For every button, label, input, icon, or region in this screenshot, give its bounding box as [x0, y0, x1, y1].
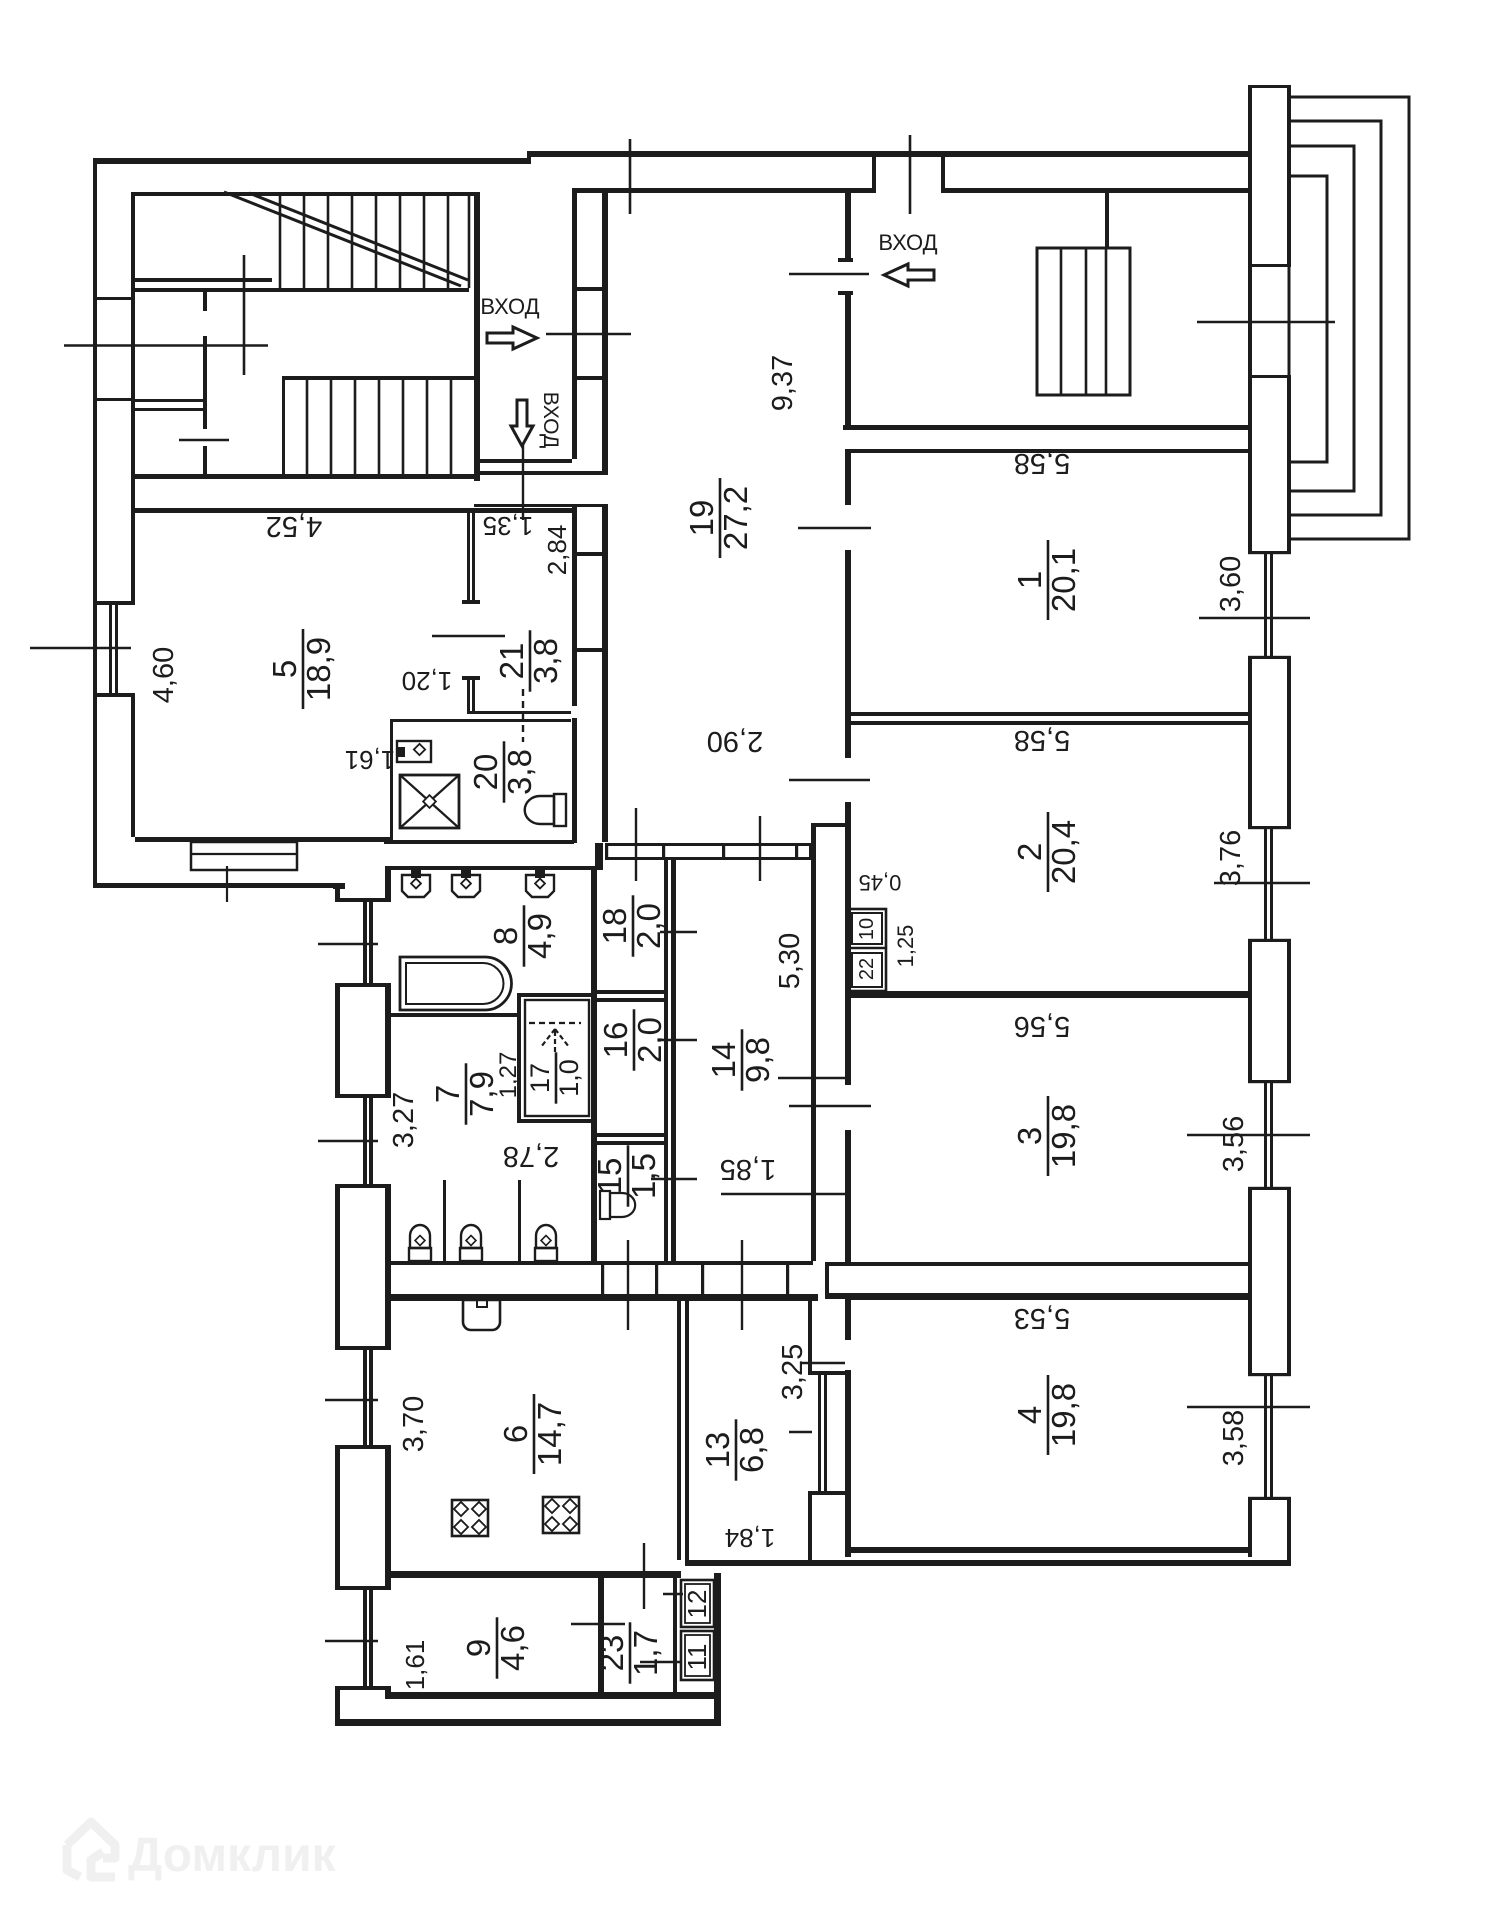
wall top band inner line left of door: [572, 188, 872, 193]
wall jog corridor19-corridor14: [811, 823, 847, 827]
toilet stall 3: [535, 1248, 557, 1261]
wall west top connector: [333, 884, 345, 889]
wall entrance inner stub: [1105, 193, 1109, 248]
wall bath block right column: [591, 866, 597, 1261]
svg-text:14,7: 14,7: [531, 1402, 568, 1466]
room label 8/4.9: [487, 905, 558, 966]
wall west outer face lower wing: [335, 884, 340, 898]
svg-text:9: 9: [460, 1639, 497, 1657]
stairs stringer diagonal 2: [249, 193, 468, 280]
door axis tick room1: [798, 527, 871, 530]
svg-text:12: 12: [682, 1590, 712, 1619]
svg-text:5,56: 5,56: [1014, 1010, 1070, 1042]
door axis tick room3: [789, 1105, 871, 1108]
wall small rooms divider: [135, 399, 207, 402]
svg-text:3,56: 3,56: [1218, 1116, 1250, 1172]
wall corridor19 east upper: [845, 193, 851, 262]
wall box16 bottom: [591, 1133, 668, 1137]
svg-text:11: 11: [682, 1644, 712, 1671]
window room7 west: [335, 1094, 391, 1098]
svg-text:6,8: 6,8: [733, 1427, 770, 1473]
svg-text:5: 5: [266, 660, 303, 678]
wall left block bottom: [384, 840, 574, 844]
vestibule top line upper: [474, 459, 572, 463]
svg-text:Домклик: Домклик: [128, 1829, 337, 1882]
svg-text:2,0: 2,0: [631, 1017, 668, 1063]
door axis tick kitchen-room9: [643, 1543, 645, 1609]
wall jamb block-corridor corner: [595, 843, 603, 869]
toilet box15: [600, 1191, 610, 1219]
svg-text:ВХОД: ВХОД: [878, 230, 937, 255]
window room9 axis tick: [325, 1640, 378, 1642]
kitchen sink: [463, 1300, 500, 1330]
svg-text:2,84: 2,84: [542, 525, 572, 576]
wall hall21 top / room5 top: [135, 508, 572, 513]
toilet stall 1: [409, 1248, 431, 1261]
wall boxes right face: [664, 860, 668, 1261]
room label 16/2.0: [597, 1009, 668, 1070]
room label 18/2.0: [596, 895, 667, 956]
wc partition 1: [443, 1180, 446, 1261]
door axis tick left rooms: [64, 344, 268, 347]
svg-text:ВХОД: ВХОД: [539, 392, 562, 449]
stairs lower flight left edge: [282, 380, 285, 474]
door cap entrance west top: [838, 258, 853, 262]
wall top band inner line right of door: [945, 188, 1248, 193]
door axis dashed hall21-room20: [522, 689, 524, 742]
door axis tick kitchen x628: [627, 1240, 629, 1330]
box12 outer: [681, 1580, 714, 1627]
wall room4 bottom: [851, 1547, 1251, 1553]
arrow vestibule down: [511, 400, 533, 446]
door axis tick entrance-left door: [546, 333, 631, 336]
svg-text:20,4: 20,4: [1045, 820, 1082, 884]
svg-text:1,35: 1,35: [483, 511, 534, 541]
box11 inner: [685, 1635, 710, 1676]
shower17 spray dashes: [529, 1022, 581, 1024]
svg-text:3,60: 3,60: [1215, 556, 1247, 612]
wall lower wing bottom inner: [391, 1692, 721, 1699]
svg-text:23: 23: [593, 1635, 630, 1672]
svg-text:27,2: 27,2: [717, 486, 754, 550]
wall east inner face segments: [1248, 85, 1252, 551]
wall corridor19 west inner face segments: [572, 193, 577, 459]
wall east outer face segments: [1287, 88, 1291, 264]
door jamb corridor19 west y555: [572, 552, 608, 556]
wall staircase block bottom: [135, 474, 480, 479]
door axis tick corridor19 bottom x636: [635, 808, 637, 881]
wall room20 left: [390, 722, 393, 840]
svg-text:1,85: 1,85: [720, 1153, 776, 1185]
room label 17/1.0: [525, 1052, 584, 1103]
svg-text:7: 7: [429, 1085, 466, 1103]
shaft 22-10 outer box: [848, 909, 886, 991]
door axis tick box15: [651, 1178, 697, 1180]
balcony rect D inner: [1289, 176, 1327, 462]
wall corridor19 east below entrance door: [845, 291, 851, 428]
shaft 10 inner box: [852, 913, 882, 944]
wall entrance block bottom: [843, 425, 1248, 430]
wall room23 east: [673, 1578, 677, 1692]
svg-text:3,70: 3,70: [398, 1396, 430, 1452]
wall small rooms right jamb upper: [203, 292, 207, 311]
wall room8 bottom: [389, 1013, 519, 1017]
wall room1 top: [845, 449, 1248, 453]
svg-text:4,6: 4,6: [494, 1625, 531, 1671]
door axis tick balcony door: [1197, 321, 1335, 324]
shower room20: [400, 775, 459, 828]
svg-text:3,27: 3,27: [388, 1092, 420, 1148]
stove 1 kitchen: [452, 1500, 488, 1536]
door jamb corridor19 west y378: [572, 376, 608, 380]
svg-text:3,25: 3,25: [777, 1344, 809, 1400]
stairs lower flight risers: [306, 380, 309, 474]
room label 13/6.8: [699, 1419, 770, 1480]
svg-text:5,58: 5,58: [1014, 724, 1070, 756]
sink room20: [397, 741, 431, 762]
door axis tick room5-hall21: [432, 635, 505, 638]
wall room23 west: [598, 1578, 604, 1692]
exterior steps mid line: [191, 853, 297, 855]
svg-text:4,60: 4,60: [148, 647, 180, 703]
svg-text:2: 2: [1011, 843, 1048, 861]
svg-text:1,27: 1,27: [495, 1052, 522, 1099]
wall lower wing bottom outer: [335, 1719, 721, 1726]
wall outer bottom-left: [93, 883, 345, 888]
window left wall room5 cap bottom: [93, 693, 135, 697]
wall bath block top: [389, 866, 603, 870]
wall staircase top inner: [135, 192, 480, 196]
wall outer top-left block: [93, 158, 531, 164]
shaft divider: [848, 947, 886, 950]
wall room5-room20 lower line: [390, 719, 571, 722]
window room3 east: [1248, 1080, 1291, 1083]
stairs lower flight top edge: [282, 376, 474, 380]
wall jog rooms3-4 west notch: [825, 1262, 851, 1266]
balcony rect B: [1289, 121, 1381, 515]
box12 inner: [685, 1584, 710, 1623]
room label 6/14.7: [497, 1394, 568, 1474]
svg-text:13: 13: [699, 1432, 736, 1469]
svg-text:21: 21: [493, 643, 530, 680]
door axis tick box18: [660, 931, 697, 933]
wall kitchen-room13 divider: [677, 1301, 681, 1560]
wall rooms west face segments: [845, 453, 851, 505]
svg-text:3: 3: [1011, 1127, 1048, 1145]
door axis tick corridor19 bottom x760: [759, 816, 761, 881]
top door jamb left: [872, 151, 876, 193]
wall cavity cap left upper: [93, 297, 135, 300]
balcony bar top cap: [1248, 85, 1291, 88]
wall corridor19 bottom lower line: [605, 857, 813, 860]
window room13-room4 caps: [808, 1371, 848, 1375]
door axis tick vertical small rooms: [243, 255, 246, 375]
sink 1 room8: [411, 869, 421, 878]
wall west inner face lower wing: [385, 866, 391, 898]
wall left inner face upper: [131, 192, 135, 601]
door axis tick corridor14 east y1194: [721, 1193, 851, 1195]
top door jamb right: [941, 151, 945, 193]
door cap hall21 lower: [462, 676, 480, 680]
door axis tick room23 west: [571, 1623, 625, 1625]
door axis tick entrance right block: [789, 273, 869, 276]
toilet stall 2: [460, 1248, 482, 1261]
svg-text:1: 1: [1011, 571, 1048, 589]
svg-text:10: 10: [856, 918, 878, 940]
room label 20/3.8: [467, 741, 538, 802]
svg-text:1,5: 1,5: [625, 1153, 662, 1199]
door jamb corridor19 west y289: [572, 287, 608, 291]
room label 14/9.8: [705, 1029, 776, 1090]
svg-text:1,61: 1,61: [400, 1640, 430, 1691]
svg-text:6: 6: [497, 1425, 534, 1443]
window left wall room5 glazing: [109, 601, 112, 697]
wall room13 east lower: [808, 1495, 812, 1560]
svg-text:22: 22: [856, 958, 878, 980]
wall room13 east upper: [808, 1301, 812, 1371]
svg-text:3,8: 3,8: [527, 638, 564, 684]
svg-text:18,9: 18,9: [300, 637, 337, 701]
svg-text:4,9: 4,9: [521, 913, 558, 959]
entrance steps box: [1037, 248, 1130, 395]
wall corridor19 bottom upper line: [605, 843, 813, 846]
exterior steps below room5: [191, 842, 297, 870]
exterior steps tick: [226, 866, 228, 902]
svg-text:0,45: 0,45: [859, 870, 902, 895]
svg-text:3,8: 3,8: [501, 749, 538, 795]
svg-text:5,53: 5,53: [1014, 1302, 1070, 1334]
wall rooms1-2 divider: [851, 712, 1248, 716]
door axis tick room2: [789, 779, 870, 782]
wall rooms2-3 divider: [851, 991, 1248, 998]
window room2 axis tick: [1214, 882, 1310, 885]
wall kitchen top: [385, 1294, 818, 1301]
room label 9/4.6: [460, 1617, 531, 1678]
wall corridor19 west outer face segments: [602, 193, 608, 471]
window room13-room4 glazing: [818, 1375, 821, 1491]
wall box16 top: [591, 998, 668, 1002]
wall staircase right: [474, 196, 480, 481]
wall room5 bottom: [135, 837, 393, 842]
svg-text:19,8: 19,8: [1045, 1104, 1082, 1168]
door jamb corridor19 west y651: [572, 648, 608, 652]
room label 15/1.5: [591, 1145, 662, 1206]
svg-text:17: 17: [525, 1063, 555, 1093]
wall rooms3-4 divider lower line: [851, 1293, 1248, 1300]
wall cavity cap left lower: [93, 398, 135, 401]
svg-text:1,0: 1,0: [554, 1059, 584, 1097]
svg-text:1,7: 1,7: [627, 1630, 664, 1676]
stairs upper flight right edge: [468, 196, 471, 288]
arrow entrance right (pointing left): [884, 264, 934, 286]
room label 19/27.2: [683, 478, 754, 558]
svg-text:18: 18: [596, 908, 633, 945]
window room2 east: [1248, 826, 1291, 829]
entrance steps dividers: [1060, 248, 1063, 395]
wall room5-hall21 lower segment: [467, 676, 470, 711]
svg-text:1,84: 1,84: [725, 1523, 776, 1553]
door axis tick box12: [663, 1593, 683, 1595]
room label 2/20.4: [1011, 812, 1082, 892]
svg-text:19: 19: [683, 500, 720, 537]
door axis tick room13 x742: [741, 1240, 743, 1330]
window room3 axis tick: [1187, 1134, 1310, 1137]
svg-text:20: 20: [467, 754, 504, 791]
wall lower wing east: [714, 1573, 721, 1726]
wall left inner face lower: [131, 697, 135, 837]
window room9 west: [335, 1586, 391, 1590]
svg-text:15: 15: [591, 1158, 628, 1195]
svg-text:8: 8: [487, 927, 524, 945]
svg-text:1,61: 1,61: [345, 745, 396, 775]
wall outer top band right part: [531, 151, 1248, 157]
wall corridor14 west: [671, 860, 676, 1261]
svg-text:5,58: 5,58: [1014, 447, 1070, 479]
window room1 axis tick: [1199, 617, 1310, 620]
svg-text:1,20: 1,20: [402, 666, 453, 696]
wall room17 box: [517, 993, 521, 1123]
room label 5/18.9: [266, 629, 337, 709]
wall corridor14 east: [811, 827, 816, 1261]
jambs middle bottom wall: [601, 1261, 604, 1301]
svg-text:4: 4: [1011, 1406, 1048, 1424]
room label 3/19.8: [1011, 1096, 1082, 1176]
wall middle block bottom: [389, 1261, 813, 1265]
wall box15 top: [591, 1141, 668, 1145]
room label 23/1.7: [593, 1622, 664, 1683]
stairs upper flight risers: [279, 196, 282, 288]
jambs corridor19 bottom: [605, 843, 608, 860]
shower17 tray inner box: [525, 1000, 589, 1116]
window room4 axis tick: [1187, 1406, 1310, 1409]
stove 2 kitchen: [543, 1497, 579, 1533]
svg-text:ВХОД: ВХОД: [480, 294, 539, 319]
wall outer left: [93, 158, 97, 888]
box11 outer: [681, 1631, 714, 1680]
wall hall21-room20: [467, 711, 571, 714]
balcony rect A outer: [1289, 97, 1409, 539]
door axis tick room4: [800, 1362, 845, 1365]
window room13 axis tick: [789, 1431, 812, 1433]
svg-text:2,0: 2,0: [630, 903, 667, 949]
door axis tick box16: [660, 1039, 697, 1041]
wall rooms3-4 divider upper line: [851, 1262, 1248, 1266]
window left wall room5 axis tick: [30, 647, 131, 650]
wall under upper flight: [135, 278, 272, 282]
svg-text:19,8: 19,8: [1045, 1383, 1082, 1447]
window left wall room5 cap top: [93, 601, 135, 605]
window room1 east: [1248, 551, 1291, 554]
top door axis tick x910: [909, 135, 912, 214]
balcony door cap bottom: [1248, 375, 1291, 378]
arrow entrance left (pointing right): [487, 327, 537, 349]
toilet room20: [554, 794, 566, 826]
room label 7/7.9: [429, 1063, 500, 1124]
svg-text:3,58: 3,58: [1218, 1410, 1250, 1466]
svg-text:1,25: 1,25: [893, 925, 918, 968]
wall top band jog connector: [527, 151, 531, 164]
svg-text:14: 14: [705, 1042, 742, 1079]
svg-text:20,1: 20,1: [1045, 548, 1082, 612]
window room8 west: [335, 898, 391, 902]
shaft 22 inner box: [852, 953, 882, 987]
wall box18 bottom: [591, 990, 668, 994]
window room7 axis tick: [318, 1140, 378, 1142]
door cap entrance west bottom: [838, 291, 853, 295]
window room4 east: [1248, 1373, 1291, 1376]
svg-text:9,8: 9,8: [739, 1037, 776, 1083]
wall under upper flight second line: [135, 288, 469, 292]
room label 4/19.8: [1011, 1375, 1082, 1455]
door axis tick lower room: [179, 439, 229, 442]
window kitchen axis tick: [325, 1399, 378, 1401]
wall small rooms right lower: [203, 446, 207, 474]
door axis tick room23 east: [640, 1661, 680, 1663]
wall outer bottom east wing: [685, 1560, 1291, 1566]
door axis tick corridor14 east y1078: [778, 1077, 851, 1079]
wall room5-hall21 upper segment: [467, 513, 470, 604]
door cap hall21 upper: [462, 600, 480, 604]
wall rooms6-9 divider: [391, 1571, 681, 1578]
svg-text:3,76: 3,76: [1215, 830, 1247, 886]
room label 1/20.1: [1011, 540, 1082, 620]
bathtub room8: [400, 957, 512, 1010]
svg-text:2,78: 2,78: [503, 1140, 559, 1172]
sink 3 room8: [535, 869, 545, 878]
balcony door cap top: [1248, 264, 1291, 267]
wall small rooms right mid: [203, 336, 207, 429]
window room8 axis tick: [318, 943, 378, 945]
wc partition 2: [518, 1180, 521, 1261]
svg-text:16: 16: [597, 1022, 634, 1059]
window kitchen west: [335, 1346, 391, 1350]
sink 2 room8: [461, 869, 471, 878]
top wall axis tick x630: [629, 139, 632, 214]
watermark house icon: [67, 1822, 115, 1877]
room label 21/3.8: [493, 630, 564, 691]
svg-text:4,52: 4,52: [266, 510, 322, 542]
svg-text:9,37: 9,37: [767, 355, 799, 411]
vestibule top line lower: [474, 471, 608, 475]
stairs stringer diagonal 1: [224, 192, 461, 286]
svg-text:2,90: 2,90: [707, 725, 763, 757]
svg-text:5,30: 5,30: [774, 933, 806, 989]
balcony rect C: [1289, 146, 1354, 491]
vestibule bottom caps line: [474, 504, 608, 507]
entrance down-door axis tick: [522, 443, 524, 520]
